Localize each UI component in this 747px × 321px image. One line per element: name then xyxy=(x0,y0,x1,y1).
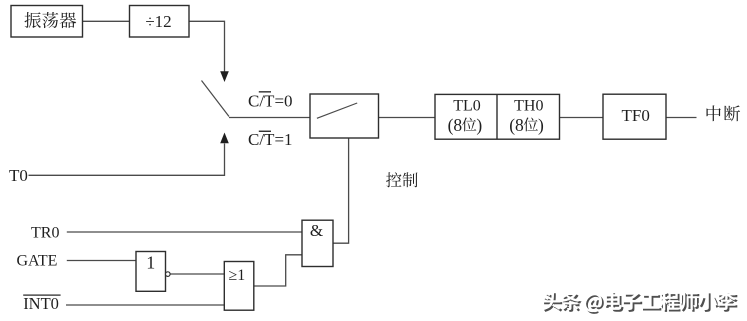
svg-text:C/T=1: C/T=1 xyxy=(248,130,293,149)
TL0/TH0 divider line xyxy=(496,94,498,139)
oscillator box xyxy=(11,6,83,38)
svg-text:1: 1 xyxy=(146,252,155,272)
svg-text:T0: T0 xyxy=(9,166,28,185)
wire NOT bubble to OR gate xyxy=(170,273,224,275)
label 中断 xyxy=(707,105,741,121)
svg-text:): ) xyxy=(538,115,544,135)
wire TR0 to AND gate xyxy=(67,231,302,233)
svg-text:TR0: TR0 xyxy=(31,225,59,242)
overline over INT0 xyxy=(23,295,60,296)
label oscillator 振荡器 xyxy=(25,12,77,28)
label 位 of TL0 xyxy=(462,118,476,132)
wire control: switch box bottom down to AND gate output xyxy=(333,138,349,243)
overline over T of C/T=1 xyxy=(259,131,271,132)
wire TH0 to TF0 xyxy=(560,117,604,119)
overline over T of C/T=0 xyxy=(259,91,271,92)
TF0 box xyxy=(603,94,666,139)
svg-text:C/T=0: C/T=0 xyxy=(248,91,293,110)
svg-text:GATE: GATE xyxy=(17,252,58,269)
NOT gate box xyxy=(136,252,166,292)
AND gate box xyxy=(302,220,333,266)
wire OR output right, up, to AND input xyxy=(254,255,302,286)
wire control box to TL0 xyxy=(379,117,436,119)
svg-text:&: & xyxy=(310,221,323,240)
svg-text:TF0: TF0 xyxy=(622,106,650,125)
down arrowhead at divider contact xyxy=(220,71,229,82)
wire switch pole to control box xyxy=(229,117,310,119)
label 位 of TH0 xyxy=(524,118,538,132)
svg-text:TL0: TL0 xyxy=(453,98,481,115)
divide-by-12 box xyxy=(130,6,190,38)
wire TF0 to interrupt label xyxy=(666,117,697,119)
wire oscillator to divider xyxy=(83,20,130,22)
switch lever outside (pole to upper contact) xyxy=(202,81,230,117)
svg-text:TH0: TH0 xyxy=(514,98,543,115)
svg-text:÷12: ÷12 xyxy=(145,12,171,31)
up arrowhead at T0 contact xyxy=(220,133,229,144)
OR gate box xyxy=(224,262,254,311)
switch control box xyxy=(310,94,379,138)
watermark white fill xyxy=(542,291,736,312)
svg-text:): ) xyxy=(476,115,482,135)
wire T0 horizontal then up to lower contact xyxy=(29,144,225,176)
NOT gate inverter bubble xyxy=(166,272,171,277)
wire GATE to NOT gate xyxy=(67,260,136,262)
svg-text:(8: (8 xyxy=(448,115,463,135)
svg-text:INT0: INT0 xyxy=(23,294,59,313)
TL0/TH0 register box xyxy=(435,94,560,139)
svg-text:(8: (8 xyxy=(509,115,524,135)
wire INT0 to OR gate xyxy=(66,304,224,306)
watermark shadow of 头条@电子工程师小李 xyxy=(544,293,738,314)
label 控制 xyxy=(386,172,417,187)
svg-text:≥1: ≥1 xyxy=(229,267,246,284)
wire divider right then down to switch contact xyxy=(189,21,225,71)
switch lever inside control box xyxy=(317,103,357,118)
